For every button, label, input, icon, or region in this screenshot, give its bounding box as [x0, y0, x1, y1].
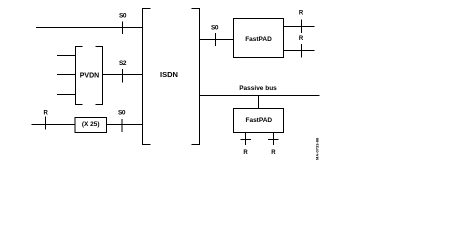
wire: X.25 to ISDN — [107, 124, 143, 126]
svg-text:S0: S0 — [119, 13, 127, 20]
svg-text:Passive bus: Passive bus — [239, 85, 277, 92]
box FastPAD 2 — [234, 109, 284, 133]
bracket: PVDN right bracket — [96, 47, 103, 105]
node R tick (mid right) — [301, 44, 303, 58]
wire: drop from passive bus to FastPAD 2 — [258, 96, 260, 109]
bracket: ISDN right bracket — [192, 9, 200, 145]
node R tick (bottom left of FastPAD 2) — [241, 139, 252, 141]
wire: R line into X.25 box — [32, 124, 76, 126]
wire: left drop below FastPAD 2 — [245, 133, 247, 146]
svg-text:R: R — [243, 150, 248, 156]
node R tick (bottom right of FastPAD 2) — [268, 139, 279, 141]
box FastPAD 1 — [234, 19, 284, 58]
wire: lower R line from FastPAD 1 — [284, 50, 315, 52]
wire: upper R line from FastPAD 1 — [284, 26, 315, 28]
wire: PVDN stub 3 — [57, 94, 76, 96]
wire: right drop below FastPAD 2 — [273, 133, 275, 146]
bracket: PVDN left bracket — [76, 47, 83, 105]
svg-text:R: R — [299, 36, 304, 42]
svg-text:MA-0733-88: MA-0733-88 — [315, 137, 320, 160]
svg-text:FastPAD: FastPAD — [245, 36, 272, 43]
node R tick (far left) — [45, 117, 47, 130]
bracket: ISDN left bracket — [143, 9, 151, 145]
svg-text:ISDN: ISDN — [160, 70, 178, 79]
svg-text:(X 25): (X 25) — [82, 121, 100, 128]
wire: S2 line from PVDN to ISDN — [103, 74, 143, 76]
svg-text:R: R — [299, 10, 304, 16]
svg-text:R: R — [271, 150, 276, 156]
node S0 tick (top left interface) — [122, 22, 124, 35]
svg-text:PVDN: PVDN — [80, 73, 99, 80]
wire: S0 line from ISDN to FastPAD 1 — [200, 39, 234, 41]
svg-text:S0: S0 — [211, 24, 219, 31]
node R tick (upper right) — [301, 20, 303, 34]
node S2 tick — [122, 69, 124, 83]
wire: passive bus line — [200, 95, 320, 97]
wire: PVDN stub 2 — [57, 74, 76, 76]
wire: top trunk line into ISDN — [36, 27, 143, 29]
box X.25 — [75, 118, 107, 133]
node S0 tick (upper right interface) — [215, 33, 217, 46]
svg-text:FastPAD: FastPAD — [245, 117, 272, 124]
svg-text:S2: S2 — [119, 60, 127, 67]
wire: PVDN stub 1 — [57, 55, 76, 57]
node S0 tick (bottom left interface) — [121, 119, 123, 132]
svg-text:S0: S0 — [118, 109, 126, 116]
svg-text:R: R — [44, 111, 49, 117]
